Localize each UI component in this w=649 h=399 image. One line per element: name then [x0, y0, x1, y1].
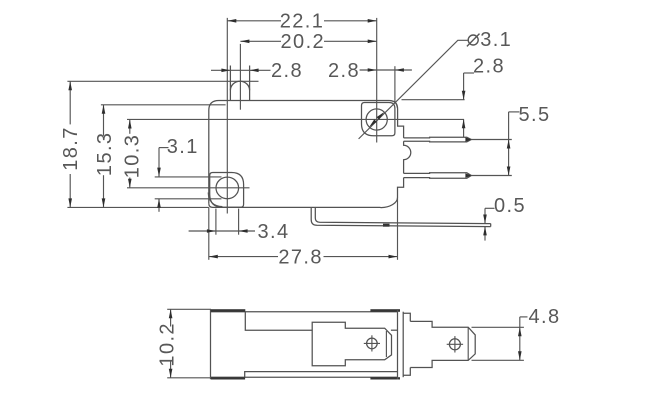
svg-text:22.1: 22.1	[280, 11, 325, 33]
svg-text:4.8: 4.8	[528, 306, 560, 328]
svg-text:2.8: 2.8	[473, 56, 505, 78]
svg-text:10.3: 10.3	[121, 134, 143, 179]
svg-text:20.2: 20.2	[281, 31, 326, 53]
svg-text:15.3: 15.3	[94, 132, 116, 177]
svg-text:18.7: 18.7	[60, 126, 82, 171]
svg-text:3.1: 3.1	[480, 29, 512, 51]
svg-text:5.5: 5.5	[518, 104, 550, 126]
svg-text:2.8: 2.8	[271, 60, 303, 82]
svg-text:3.4: 3.4	[257, 221, 289, 243]
svg-text:3.1: 3.1	[167, 136, 199, 158]
svg-text:2.8: 2.8	[328, 60, 360, 82]
svg-text:10.2: 10.2	[157, 322, 179, 367]
svg-text:0.5: 0.5	[494, 195, 526, 217]
svg-text:27.8: 27.8	[278, 246, 323, 268]
